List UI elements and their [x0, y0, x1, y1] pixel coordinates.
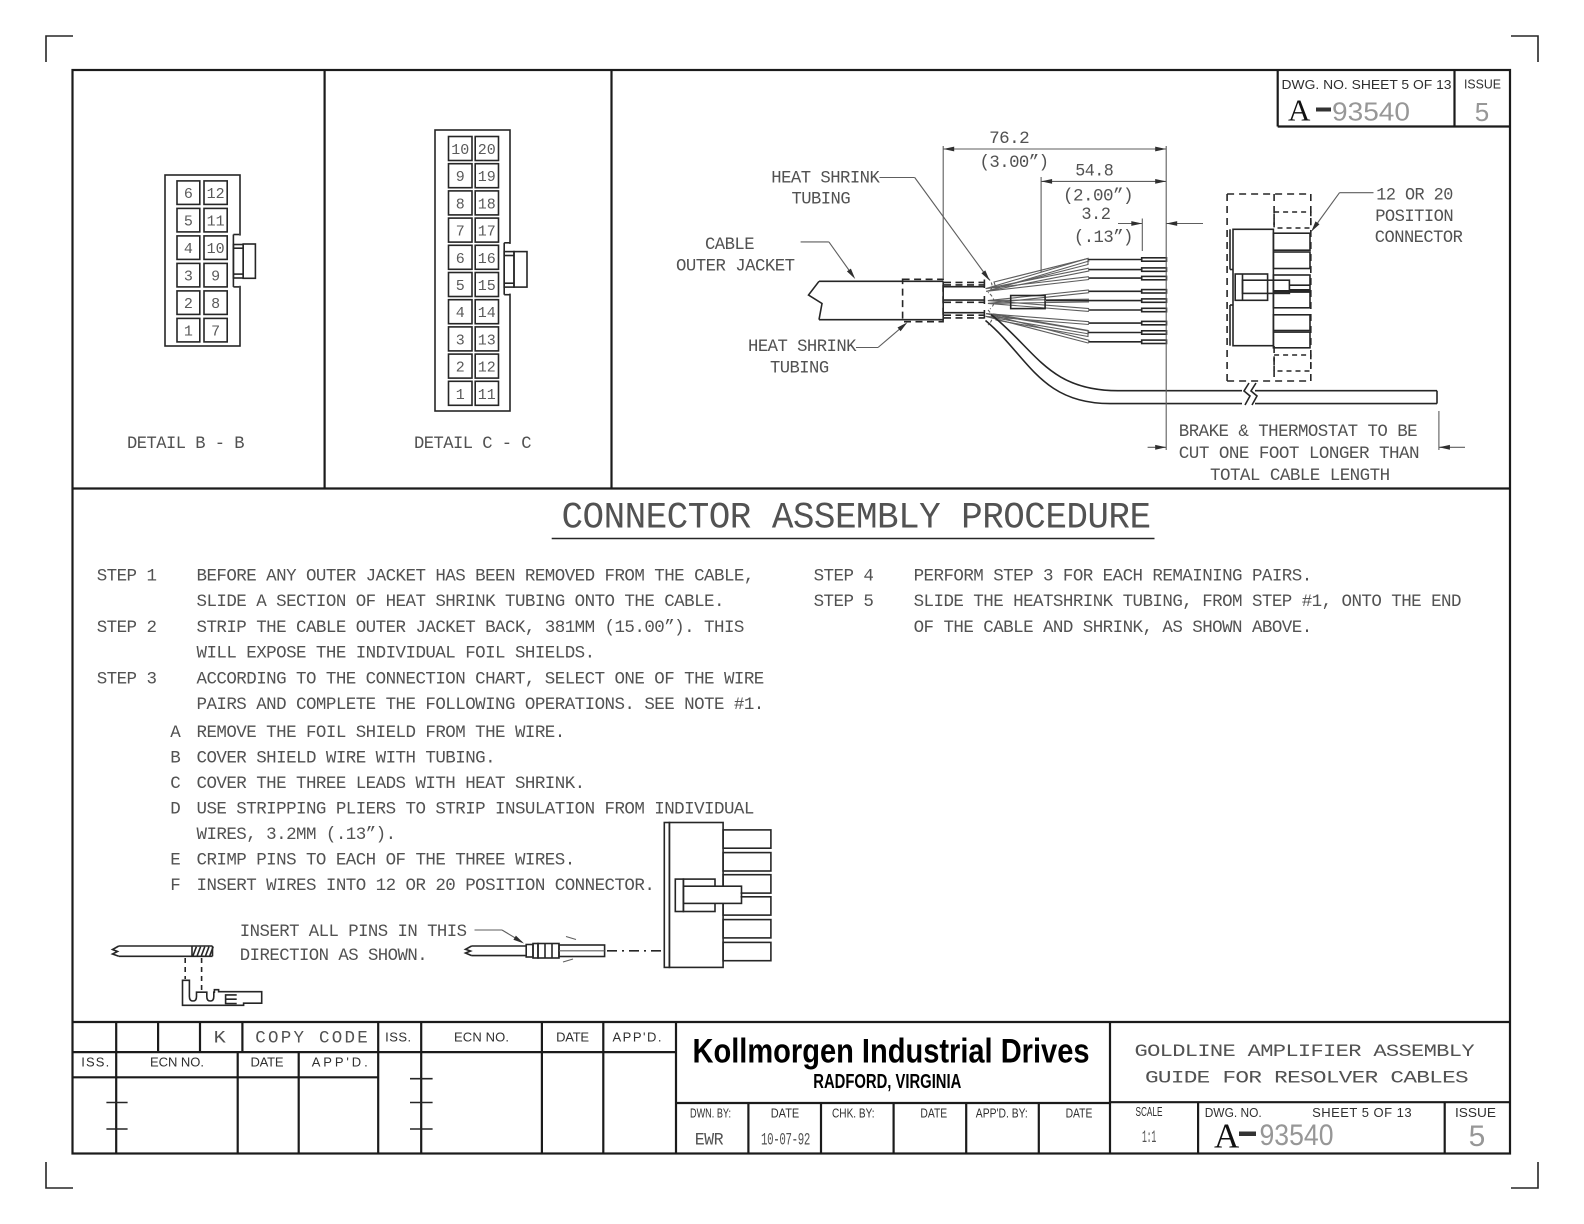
svg-text:TOTAL CABLE LENGTH: TOTAL CABLE LENGTH [1210, 466, 1390, 486]
svg-text:A: A [1288, 93, 1311, 128]
svg-text:COPY CODE: COPY CODE [255, 1029, 367, 1049]
svg-text:WIRES, 3.2MM (.13”).: WIRES, 3.2MM (.13”). [197, 825, 396, 845]
svg-text:5: 5 [1475, 97, 1489, 127]
svg-text:A: A [1214, 1117, 1240, 1156]
svg-text:11: 11 [207, 214, 225, 231]
svg-text:ECN NO.: ECN NO. [150, 1055, 204, 1070]
svg-text:STRIP THE CABLE OUTER JACKET B: STRIP THE CABLE OUTER JACKET BACK, 381MM… [197, 618, 744, 638]
svg-text:19: 19 [478, 169, 496, 186]
svg-text:8: 8 [456, 196, 465, 213]
svg-text:CABLE: CABLE [705, 235, 754, 255]
svg-text:6: 6 [184, 186, 193, 203]
svg-text:1:1: 1:1 [1142, 1128, 1156, 1148]
svg-text:DWN. BY:: DWN. BY: [690, 1106, 731, 1121]
svg-text:GUIDE FOR RESOLVER CABLES: GUIDE FOR RESOLVER CABLES [1145, 1068, 1468, 1088]
svg-text:OF THE CABLE AND SHRINK, AS SH: OF THE CABLE AND SHRINK, AS SHOWN ABOVE. [914, 618, 1312, 638]
svg-text:USE STRIPPING PLIERS TO STRIP: USE STRIPPING PLIERS TO STRIP INSULATION… [197, 799, 754, 819]
svg-text:12 OR 20: 12 OR 20 [1376, 185, 1453, 205]
svg-text:3: 3 [456, 332, 465, 349]
svg-text:4: 4 [456, 305, 465, 322]
svg-text:SHEET 5 OF 13: SHEET 5 OF 13 [1312, 1105, 1412, 1120]
svg-text:ACCORDING TO THE CONNECTION CH: ACCORDING TO THE CONNECTION CHART, SELEC… [197, 669, 764, 689]
svg-text:DATE: DATE [771, 1106, 800, 1121]
svg-text:4: 4 [184, 241, 193, 258]
svg-text:ISSUE: ISSUE [1464, 77, 1501, 92]
svg-text:Kollmorgen Industrial Drives: Kollmorgen Industrial Drives [693, 1033, 1090, 1071]
svg-text:9: 9 [456, 169, 465, 186]
svg-text:DATE: DATE [556, 1030, 589, 1045]
svg-text:5: 5 [1469, 1120, 1486, 1153]
svg-text:17: 17 [478, 224, 496, 241]
svg-text:K: K [214, 1029, 227, 1049]
svg-text:INSERT ALL PINS IN THIS: INSERT ALL PINS IN THIS [240, 922, 467, 942]
svg-text:SLIDE THE HEATSHRINK TUBING, F: SLIDE THE HEATSHRINK TUBING, FROM STEP #… [914, 592, 1461, 612]
svg-text:9: 9 [211, 269, 220, 286]
svg-text:DWG. NO. SHEET 5 OF 13: DWG. NO. SHEET 5 OF 13 [1282, 77, 1452, 92]
svg-text:PAIRS AND COMPLETE THE FOLLOWI: PAIRS AND COMPLETE THE FOLLOWING OPERATI… [197, 695, 764, 715]
svg-text:F: F [170, 876, 180, 896]
svg-text:20: 20 [478, 142, 496, 159]
svg-text:10: 10 [451, 142, 469, 159]
svg-text:2: 2 [456, 360, 465, 377]
svg-text:54.8: 54.8 [1075, 162, 1113, 182]
svg-text:DIRECTION AS SHOWN.: DIRECTION AS SHOWN. [240, 946, 427, 966]
svg-text:C: C [170, 774, 180, 794]
svg-text:8: 8 [211, 296, 220, 313]
svg-text:DETAIL B - B: DETAIL B - B [127, 434, 244, 454]
svg-text:WILL EXPOSE THE INDIVIDUAL FOI: WILL EXPOSE THE INDIVIDUAL FOIL SHIELDS. [197, 644, 595, 664]
svg-text:15: 15 [478, 278, 496, 295]
svg-text:3.2: 3.2 [1081, 205, 1110, 225]
svg-text:18: 18 [478, 196, 496, 213]
svg-text:(2.00”): (2.00”) [1063, 187, 1133, 207]
svg-text:APP'D.: APP'D. [613, 1030, 662, 1045]
svg-text:1: 1 [184, 324, 193, 341]
svg-text:13: 13 [478, 332, 496, 349]
svg-text:STEP 3: STEP 3 [97, 669, 157, 689]
svg-text:POSITION: POSITION [1375, 207, 1453, 227]
svg-text:D: D [170, 799, 180, 819]
svg-text:DATE: DATE [920, 1106, 947, 1121]
svg-text:1: 1 [456, 387, 465, 404]
svg-text:CRIMP PINS TO EACH OF THE THRE: CRIMP PINS TO EACH OF THE THREE WIRES. [197, 851, 575, 871]
svg-text:16: 16 [478, 251, 496, 268]
svg-text:BEFORE ANY OUTER JACKET HAS BE: BEFORE ANY OUTER JACKET HAS BEEN REMOVED… [197, 567, 754, 587]
svg-text:ISSUE: ISSUE [1455, 1105, 1496, 1120]
svg-text:76.2: 76.2 [989, 129, 1029, 149]
svg-text:3: 3 [184, 269, 193, 286]
svg-text:B: B [170, 748, 180, 768]
svg-text:CONNECTOR: CONNECTOR [1375, 228, 1464, 248]
svg-text:11: 11 [478, 387, 496, 404]
svg-text:OUTER JACKET: OUTER JACKET [676, 257, 795, 277]
svg-text:COVER THE THREE LEADS WITH HEA: COVER THE THREE LEADS WITH HEAT SHRINK. [197, 774, 585, 794]
svg-text:7: 7 [211, 324, 220, 341]
svg-text:SCALE: SCALE [1136, 1104, 1163, 1119]
svg-text:10-07-92: 10-07-92 [761, 1131, 810, 1151]
svg-text:A: A [170, 723, 181, 743]
svg-text:6: 6 [456, 251, 465, 268]
svg-text:ECN NO.: ECN NO. [454, 1030, 509, 1045]
svg-text:10: 10 [207, 241, 225, 258]
svg-text:(.13”): (.13”) [1074, 228, 1133, 248]
svg-text:STEP 2: STEP 2 [97, 618, 157, 638]
svg-text:INSERT WIRES INTO 12 OR 20 POS: INSERT WIRES INTO 12 OR 20 POSITION CONN… [197, 876, 655, 896]
svg-text:HEAT SHRINK: HEAT SHRINK [748, 337, 857, 357]
svg-text:REMOVE THE FOIL SHIELD FROM TH: REMOVE THE FOIL SHIELD FROM THE WIRE. [197, 723, 565, 743]
svg-text:STEP 5: STEP 5 [814, 592, 874, 612]
svg-text:2: 2 [184, 296, 193, 313]
svg-text:TUBING: TUBING [770, 359, 829, 379]
svg-text:12: 12 [478, 360, 496, 377]
svg-text:93540: 93540 [1332, 97, 1410, 127]
svg-text:14: 14 [478, 305, 496, 322]
svg-text:93540: 93540 [1260, 1119, 1334, 1152]
svg-text:(3.00”): (3.00”) [980, 153, 1049, 173]
svg-text:RADFORD, VIRGINIA: RADFORD, VIRGINIA [813, 1071, 961, 1093]
svg-text:DATE: DATE [1066, 1106, 1093, 1121]
svg-text:HEAT SHRINK: HEAT SHRINK [771, 168, 880, 188]
svg-text:DETAIL C - C: DETAIL C - C [414, 434, 531, 454]
svg-text:STEP 1: STEP 1 [97, 567, 157, 587]
svg-text:COVER SHIELD WIRE WITH TUBING.: COVER SHIELD WIRE WITH TUBING. [197, 748, 496, 768]
svg-text:STEP 4: STEP 4 [814, 567, 874, 587]
svg-text:ISS.: ISS. [81, 1055, 109, 1070]
svg-text:BRAKE & THERMOSTAT TO BE: BRAKE & THERMOSTAT TO BE [1179, 422, 1417, 442]
svg-text:GOLDLINE AMPLIFIER ASSEMBLY: GOLDLINE AMPLIFIER ASSEMBLY [1135, 1042, 1476, 1062]
svg-text:5: 5 [456, 278, 465, 295]
svg-text:7: 7 [456, 224, 465, 241]
svg-text:EWR: EWR [695, 1131, 724, 1151]
svg-text:ISS.: ISS. [385, 1030, 411, 1045]
svg-text:12: 12 [207, 186, 225, 203]
svg-text:SLIDE A SECTION OF HEAT SHRINK: SLIDE A SECTION OF HEAT SHRINK TUBING ON… [197, 592, 724, 612]
svg-text:E: E [170, 851, 180, 871]
svg-text:PERFORM STEP 3 FOR EACH REMAIN: PERFORM STEP 3 FOR EACH REMAINING PAIRS. [914, 567, 1312, 587]
svg-text:TUBING: TUBING [792, 190, 851, 210]
svg-text:CONNECTOR ASSEMBLY PROCEDURE: CONNECTOR ASSEMBLY PROCEDURE [562, 497, 1151, 539]
svg-text:CHK. BY:: CHK. BY: [832, 1106, 875, 1121]
svg-text:CUT ONE FOOT LONGER THAN: CUT ONE FOOT LONGER THAN [1179, 444, 1419, 464]
svg-text:DATE: DATE [251, 1055, 284, 1070]
svg-text:APP'D. BY:: APP'D. BY: [976, 1106, 1028, 1121]
svg-text:5: 5 [184, 214, 193, 231]
svg-text:APP'D.: APP'D. [312, 1055, 368, 1070]
